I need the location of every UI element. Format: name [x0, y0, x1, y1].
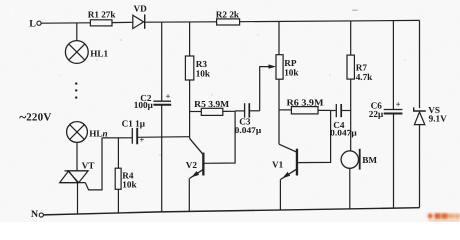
microphone BM — [341, 149, 377, 170]
wire VS to N rail — [419, 125, 421, 208]
wire C2 to N rail — [161, 105, 163, 212]
wire gate node to C1 — [102, 137, 132, 139]
watermark — [428, 213, 460, 221]
transistor V1 — [272, 144, 298, 179]
wire V1 emitter to N rail — [279, 180, 281, 211]
scan noise specks — [60, 9, 406, 155]
resistor R2 — [216, 10, 240, 25]
wire top rail to R7 — [350, 21, 352, 55]
wire HLn to triac — [76, 142, 78, 171]
capacitor C3 — [235, 103, 262, 135]
lamp HLn — [67, 122, 108, 143]
resistor R6 — [279, 98, 331, 114]
wire R7 to BM — [350, 79, 352, 151]
lamp HL1 — [65, 41, 108, 64]
resistor R7 — [347, 55, 373, 82]
capacitor C6 — [369, 100, 403, 119]
wire C1 to V2 collector node — [137, 136, 189, 139]
wire L to R1 — [41, 22, 90, 24]
resistor R3 — [185, 56, 210, 80]
resistor R1 — [88, 10, 117, 26]
wire VD to R2 — [145, 21, 217, 23]
wire R6/C4 node down to V1 base — [298, 110, 331, 162]
terminal N — [31, 209, 44, 220]
wire R1 to VD — [112, 21, 133, 23]
zener diode VS — [414, 105, 447, 125]
ellipsis dots — [75, 82, 77, 98]
wire triac to N rail — [77, 183, 79, 214]
potentiometer RP — [269, 21, 300, 144]
transistor V2 — [186, 138, 205, 178]
resistor R4 — [115, 168, 137, 189]
wire top rail to C6 — [392, 21, 394, 110]
wire N rail — [44, 208, 420, 215]
triac gate wire — [85, 138, 102, 190]
wire BM to N rail — [349, 168, 351, 209]
capacitor C4 — [330, 104, 357, 138]
wire R3 to V2 collector — [189, 80, 191, 138]
wire R4 to N rail — [117, 189, 119, 213]
wire top rail to HL1 — [76, 23, 78, 41]
diode VD — [133, 4, 147, 29]
wire top rail to R3 — [189, 22, 191, 56]
wire C3 up to RP wiper — [260, 67, 269, 111]
terminal L — [29, 18, 41, 29]
wire right edge down to VS — [419, 20, 421, 108]
capacitor C1 — [122, 118, 146, 144]
wire top rail to C2 — [161, 22, 163, 101]
wire C6 to N rail — [393, 114, 395, 209]
wire R5/C3 node down to V2 base — [205, 111, 236, 163]
capacitor C2 — [134, 92, 171, 110]
wire V2 emitter to N rail — [188, 179, 190, 213]
triac VT — [60, 160, 95, 182]
resistor R5 — [190, 99, 235, 115]
wire C1 node to R4 — [117, 138, 119, 168]
wire R2 to top right corner — [240, 20, 420, 21]
